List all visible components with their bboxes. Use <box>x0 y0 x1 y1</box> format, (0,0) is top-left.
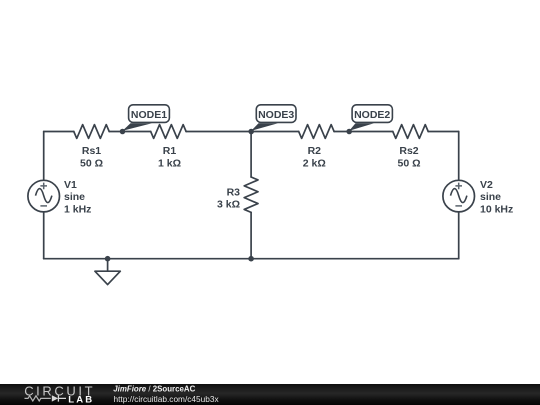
svg-text:10 kHz: 10 kHz <box>480 204 513 216</box>
wire left rail top (V1 to top wire) <box>43 132 45 180</box>
wire right rail bottom (V2 to bottom wire) <box>458 212 460 258</box>
junction node3 <box>248 129 254 135</box>
label R1 value <box>158 145 181 169</box>
svg-text:NODE1: NODE1 <box>131 109 167 121</box>
ground symbol <box>95 259 120 285</box>
resistor Rs1 <box>74 125 109 139</box>
svg-text:50 Ω: 50 Ω <box>80 157 103 169</box>
junction R3 bottom <box>248 256 254 262</box>
label Rs2 value <box>397 145 420 169</box>
resistor R1 <box>151 125 186 139</box>
svg-text:3 kΩ: 3 kΩ <box>217 199 240 211</box>
node NODE1 callout <box>123 105 170 131</box>
voltage source V2 (sine, circle symbol) <box>443 180 475 212</box>
wire R3 branch bottom <box>250 212 252 258</box>
label R2 value <box>303 145 326 169</box>
CircuitLab logo resistor zigzag <box>25 396 51 401</box>
svg-text:V1: V1 <box>64 179 77 191</box>
svg-text:R3: R3 <box>227 186 241 198</box>
label V2 value <box>480 179 513 216</box>
wire top segment 3 (node3 run) <box>186 131 299 133</box>
voltage source V1 (sine, circle symbol) <box>28 180 60 212</box>
footer bar <box>0 384 540 405</box>
wire top segment 4 (node2 run) <box>334 131 393 133</box>
svg-text:sine: sine <box>480 191 501 203</box>
svg-text:V2: V2 <box>480 179 493 191</box>
svg-text:JimFiore / 2SourceAC: JimFiore / 2SourceAC <box>113 385 195 394</box>
resistor R2 <box>299 125 334 139</box>
wire top segment 5 <box>428 131 459 133</box>
svg-text:50 Ω: 50 Ω <box>397 157 420 169</box>
svg-text:R2: R2 <box>308 145 322 157</box>
label Rs1 value <box>80 145 103 169</box>
svg-text:sine: sine <box>64 191 85 203</box>
junction node2 <box>346 129 352 135</box>
svg-text:1 kHz: 1 kHz <box>64 204 91 216</box>
svg-text:Rs2: Rs2 <box>399 145 418 157</box>
svg-text:R1: R1 <box>163 145 177 157</box>
svg-text:1 kΩ: 1 kΩ <box>158 157 181 169</box>
node NODE3 callout <box>251 105 296 131</box>
label V1 value <box>64 179 91 216</box>
wire top segment 2 (node1 run) <box>109 131 151 133</box>
svg-text:Rs1: Rs1 <box>82 145 101 157</box>
junction node1 <box>120 129 126 135</box>
svg-text:http://circuitlab.com/c45ub3x: http://circuitlab.com/c45ub3x <box>114 394 220 404</box>
node NODE2 callout <box>349 105 392 131</box>
wire top segment 1 <box>44 131 74 133</box>
svg-text:2 kΩ: 2 kΩ <box>303 157 326 169</box>
wire bottom rail <box>44 258 459 260</box>
wire right rail top (top wire to V2) <box>458 132 460 180</box>
CircuitLab logo diode <box>52 395 58 401</box>
junction ground tie <box>105 256 111 262</box>
resistor Rs2 <box>393 125 428 139</box>
resistor R3 <box>244 177 258 212</box>
wire R3 branch top <box>250 132 252 178</box>
label R3 value <box>217 186 240 210</box>
svg-text:NODE3: NODE3 <box>258 109 294 121</box>
svg-text:LAB: LAB <box>68 395 94 405</box>
svg-text:NODE2: NODE2 <box>354 109 390 121</box>
wire left rail bottom (V1 to bottom wire) <box>43 212 45 258</box>
